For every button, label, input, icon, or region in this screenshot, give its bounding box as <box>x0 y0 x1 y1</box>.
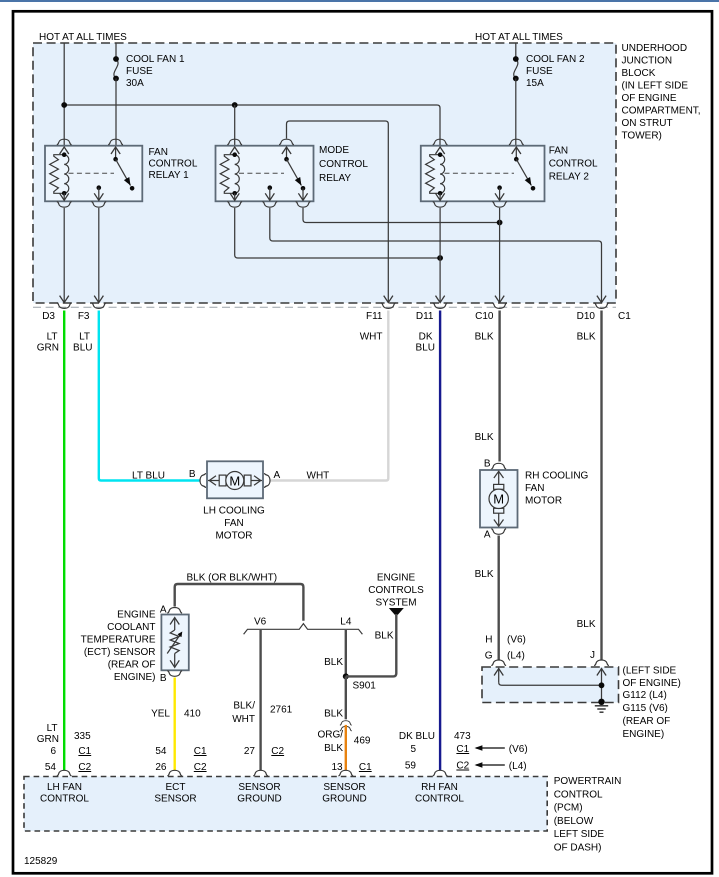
relay K2 coil pin 2 wire <box>234 193 236 200</box>
svg-text:(IN LEFT SIDE: (IN LEFT SIDE <box>622 81 689 92</box>
relay K1 switch contact <box>130 186 135 191</box>
relay K3 switch blade <box>516 159 531 185</box>
inline connector <box>340 721 352 725</box>
svg-text:C2: C2 <box>271 746 284 757</box>
svg-text:COOLANT: COOLANT <box>107 622 155 633</box>
svg-text:ON STRUT: ON STRUT <box>622 118 673 129</box>
svg-text:6: 6 <box>50 746 56 757</box>
svg-text:BLU: BLU <box>73 343 92 354</box>
wire: engine controls system to S901 <box>346 614 397 676</box>
svg-text:FUSE: FUSE <box>126 66 153 77</box>
svg-text:JUNCTION: JUNCTION <box>622 56 673 67</box>
connector at ECT pin B <box>167 671 182 677</box>
wire: YEL ECT B to PCM <box>173 678 175 771</box>
fuse COOL FAN 2 15A <box>513 56 519 81</box>
relay K2 body <box>216 146 314 202</box>
svg-text:J: J <box>590 650 595 661</box>
wire: ECT pin A harness BLK (OR BLK/WHT) <box>175 584 304 621</box>
svg-text:(PCM): (PCM) <box>554 803 583 814</box>
relay K1 switch common pin <box>115 147 117 159</box>
relay K2 internal dashed link <box>239 172 284 174</box>
svg-text:BLK: BLK <box>324 709 343 720</box>
svg-text:GRN: GRN <box>37 343 59 354</box>
svg-text:HOT AT ALL TIMES: HOT AT ALL TIMES <box>39 32 127 43</box>
svg-text:RH FAN: RH FAN <box>421 782 458 793</box>
svg-text:RELAY: RELAY <box>319 173 351 184</box>
svg-text:FAN: FAN <box>224 518 243 529</box>
svg-text:WHT: WHT <box>307 471 330 482</box>
svg-text:C1: C1 <box>359 762 372 773</box>
svg-text:F3: F3 <box>78 311 90 322</box>
relay K1 coil pin 2 wire <box>63 193 65 200</box>
wire: fuse1 to relay1 switch <box>115 79 117 147</box>
svg-text:54: 54 <box>155 746 167 757</box>
connector at ECT pin A <box>167 608 182 614</box>
relay K2 switch common pin <box>286 147 288 159</box>
svg-text:30A: 30A <box>126 78 144 89</box>
svg-text:473: 473 <box>454 731 471 742</box>
fuse COOL FAN 1 30A <box>113 56 119 81</box>
relay K3 coil pin 1 arrow <box>436 147 445 154</box>
relay K3 switch common pin <box>515 147 517 159</box>
connector at pin F11 <box>381 303 396 309</box>
motor M2 shaft line and arrows <box>498 471 500 527</box>
svg-text:C1: C1 <box>78 746 91 757</box>
svg-text:ENGINE: ENGINE <box>117 610 156 621</box>
svg-text:410: 410 <box>184 709 201 720</box>
wire: relay1 middle pin to F3 <box>98 208 100 302</box>
splice S901 <box>343 673 349 679</box>
connector at PCM pin 54/26 <box>167 770 182 776</box>
connector at PCM pin 27 <box>253 770 268 776</box>
relay K3: FAN CONTROL RELAY 2 <box>421 139 598 207</box>
wire: ORG/BLK to PCM <box>345 725 347 771</box>
svg-text:15A: 15A <box>526 78 544 89</box>
svg-text:(LEFT SIDE: (LEFT SIDE <box>623 666 677 677</box>
relay K2 switch blade <box>287 159 302 185</box>
motor M1: LH COOLING FAN MOTOR <box>189 461 281 541</box>
svg-text:RH COOLING: RH COOLING <box>525 471 589 482</box>
svg-text:469: 469 <box>354 736 371 747</box>
svg-text:C1: C1 <box>618 311 631 322</box>
svg-text:LH COOLING: LH COOLING <box>203 506 265 517</box>
svg-text:DK BLU: DK BLU <box>399 731 435 742</box>
motor M1 body <box>207 461 263 498</box>
svg-text:CONTROLS: CONTROLS <box>368 585 424 596</box>
svg-text:F11: F11 <box>366 311 383 322</box>
wire: BLK D10 to ground <box>600 311 602 661</box>
svg-text:FUSE: FUSE <box>526 66 553 77</box>
svg-text:A: A <box>160 605 167 616</box>
svg-text:BLK: BLK <box>475 432 494 443</box>
svg-text:MODE: MODE <box>319 145 349 156</box>
wire: DK BLU D11 to PCM <box>439 311 441 771</box>
connector at pin G/H <box>491 660 506 666</box>
svg-text:COMPARTMENT,: COMPARTMENT, <box>622 106 701 117</box>
svg-text:D3: D3 <box>42 311 55 322</box>
svg-text:D10: D10 <box>577 311 596 322</box>
svg-text:M: M <box>229 473 240 488</box>
svg-text:OF ENGINE): OF ENGINE) <box>623 678 681 689</box>
PCM box <box>24 777 547 832</box>
motor M1 brushes <box>219 475 226 486</box>
sensor: ECT thermistor <box>160 605 189 685</box>
svg-text:LEFT SIDE: LEFT SIDE <box>554 829 605 840</box>
svg-text:13: 13 <box>331 762 343 773</box>
svg-text:(L4): (L4) <box>507 651 525 662</box>
connector at PCM pin 13 <box>338 770 353 776</box>
wire: V6 branch BLK/WHT <box>259 630 261 771</box>
wire: mode relay switch common up and over to F11 <box>287 121 389 302</box>
svg-text:B: B <box>189 469 196 480</box>
wire: mode relay switch output over to C10 <box>303 208 500 223</box>
relay K1 pin connectors <box>57 139 72 145</box>
svg-text:BLK: BLK <box>324 743 343 754</box>
relay K1 output pin <box>97 185 102 190</box>
wire: left hot feed down to relay1 coil <box>63 43 65 146</box>
wire: LT BLU F3 to LH motor <box>99 311 200 481</box>
off-page arrow from engine controls system <box>389 608 404 617</box>
connector at pin D3 <box>57 303 72 309</box>
svg-text:CONTROL: CONTROL <box>319 159 368 170</box>
svg-text:H: H <box>485 635 492 646</box>
relay K3 output pin <box>497 185 502 190</box>
svg-text:26: 26 <box>155 762 167 773</box>
motor M1 armature symbol <box>226 472 244 490</box>
junction: bus at left feed <box>61 102 67 108</box>
motor M1 pin B connector <box>200 473 206 488</box>
wire: relay2 middle pin to C10 <box>499 208 501 302</box>
svg-text:(REAR OF: (REAR OF <box>108 660 156 671</box>
svg-text:OF DASH): OF DASH) <box>554 843 602 854</box>
connector at pin D10 <box>594 303 609 309</box>
wire: RH motor A to ground box <box>498 536 500 661</box>
svg-text:MOTOR: MOTOR <box>525 496 562 507</box>
connector at pin J <box>594 660 609 666</box>
svg-text:BLK/: BLK/ <box>233 701 255 712</box>
svg-text:5: 5 <box>410 744 416 755</box>
svg-text:GROUND: GROUND <box>237 794 281 805</box>
svg-text:BLK: BLK <box>324 657 343 668</box>
svg-text:C2: C2 <box>194 762 207 773</box>
svg-text:A: A <box>484 530 491 541</box>
wire: relay1 coil bottom to D3 <box>63 208 65 302</box>
svg-text:FAN: FAN <box>149 147 168 158</box>
svg-text:C10: C10 <box>475 311 494 322</box>
svg-text:G112 (L4): G112 (L4) <box>623 690 667 701</box>
svg-text:GRN: GRN <box>37 734 59 745</box>
svg-text:DK: DK <box>419 332 433 343</box>
svg-text:D11: D11 <box>416 311 434 322</box>
junction block connector face line <box>33 306 616 308</box>
relay K3 coil <box>426 152 445 195</box>
svg-text:SENSOR: SENSOR <box>323 782 365 793</box>
relay K3 pin connectors <box>433 139 448 145</box>
svg-text:ENGINE): ENGINE) <box>114 672 156 683</box>
relay K3 body <box>421 146 545 202</box>
wire: S901 down to inline connector <box>345 676 347 719</box>
top blue rule <box>0 0 719 2</box>
relay K1 coil <box>50 152 69 195</box>
underhood junction block box <box>33 43 616 303</box>
relay K3 switch contact <box>531 186 536 191</box>
svg-text:ECT: ECT <box>166 782 186 793</box>
relay K3 internal dashed link <box>445 172 515 174</box>
svg-text:G115 (V6): G115 (V6) <box>623 703 668 714</box>
svg-text:POWERTRAIN: POWERTRAIN <box>554 776 622 787</box>
svg-text:CONTROL: CONTROL <box>40 794 89 805</box>
svg-text:RELAY 1: RELAY 1 <box>149 170 190 181</box>
svg-text:BLK: BLK <box>375 631 394 642</box>
svg-text:TOWER): TOWER) <box>622 131 662 142</box>
svg-text:FAN: FAN <box>549 146 568 157</box>
svg-text:(ECT) SENSOR: (ECT) SENSOR <box>84 647 156 658</box>
relay K1: FAN CONTROL RELAY 1 <box>45 139 198 207</box>
ECT sensor body <box>161 615 188 671</box>
svg-text:M: M <box>493 492 504 507</box>
ECT pin B lead <box>174 654 176 668</box>
connector at PCM pin 6/54 <box>57 770 72 776</box>
relay K1 coil pin 1 arrow <box>60 147 69 154</box>
svg-text:LT: LT <box>47 723 58 734</box>
svg-text:FAN: FAN <box>525 483 544 494</box>
relay K2: MODE CONTROL RELAY <box>216 139 369 207</box>
wire: mode relay coil drop <box>234 105 236 146</box>
relay K2 output pin <box>268 185 273 190</box>
svg-text:C1: C1 <box>194 746 207 757</box>
wire: WHT F11 to LH motor <box>271 311 389 481</box>
ECT thermistor resistor zigzag <box>170 630 179 654</box>
option arrow (V6) <box>476 747 505 749</box>
wire: pin J entry <box>601 668 603 702</box>
ground <box>598 699 604 705</box>
ground block G112/G115 <box>482 660 619 712</box>
svg-text:(BELOW: (BELOW <box>554 816 594 827</box>
svg-text:L4: L4 <box>340 617 352 628</box>
svg-text:WHT: WHT <box>360 332 383 343</box>
svg-text:BLK: BLK <box>475 332 494 343</box>
svg-text:LT: LT <box>79 332 90 343</box>
motor M2 pin B connector <box>491 463 506 469</box>
ground block body <box>482 667 619 703</box>
svg-text:(V6): (V6) <box>509 744 528 755</box>
motor M2 armature symbol <box>489 489 508 508</box>
relay K2 coil pin 1 arrow <box>230 147 239 154</box>
svg-text:COOL FAN 2: COOL FAN 2 <box>526 54 585 65</box>
ECT variable arrow <box>167 634 180 653</box>
relay K2 switch contact pin <box>301 186 306 191</box>
relay K2 pin connectors <box>227 139 242 145</box>
svg-text:LT BLU: LT BLU <box>132 471 165 482</box>
svg-text:HOT AT ALL TIMES: HOT AT ALL TIMES <box>475 32 563 43</box>
svg-text:MOTOR: MOTOR <box>215 531 252 542</box>
motor M2: RH COOLING FAN MOTOR <box>480 459 589 541</box>
connector at PCM pin 5/59 <box>433 770 448 776</box>
connector at pin D11 <box>433 303 448 309</box>
wire: mode relay coil bottom over to D11 <box>235 208 440 258</box>
svg-text:CONTROL: CONTROL <box>554 789 603 800</box>
svg-text:V6: V6 <box>254 617 267 628</box>
ECT pin A lead <box>174 618 176 631</box>
connector at pin F3 <box>91 303 106 309</box>
relay K3 coil pin 2 wire <box>439 193 441 200</box>
relay K1 body <box>45 146 142 202</box>
wire: fuse2 to relay2 switch <box>515 79 517 147</box>
motor M1 pin A connector <box>264 473 270 488</box>
svg-text:S901: S901 <box>353 681 377 692</box>
svg-text:54: 54 <box>45 762 57 773</box>
relay K1 internal dashed link <box>69 172 115 174</box>
svg-text:C2: C2 <box>456 761 469 772</box>
option arrow (L4) <box>476 764 505 766</box>
svg-text:LH FAN: LH FAN <box>47 782 82 793</box>
motor M1 shaft line and arrows <box>208 480 262 482</box>
relay K1 switch blade <box>116 159 131 185</box>
motor M2 pin A connector <box>491 529 506 535</box>
svg-text:BLU: BLU <box>416 343 435 354</box>
svg-text:CONTROL: CONTROL <box>149 159 198 170</box>
wire: hot bus <box>64 105 440 146</box>
svg-text:YEL: YEL <box>151 709 170 720</box>
svg-text:335: 335 <box>74 731 91 742</box>
svg-text:B: B <box>160 673 167 684</box>
wire: L4 branch BLK to S901 <box>345 630 347 676</box>
svg-text:ENGINE): ENGINE) <box>623 729 665 740</box>
V6/L4 option split bracket <box>244 624 363 635</box>
wire: fuse1 drop <box>115 43 117 59</box>
svg-text:125829: 125829 <box>24 856 58 867</box>
svg-text:G: G <box>485 651 493 662</box>
connector at pin C10 <box>492 303 507 309</box>
svg-text:(REAR OF: (REAR OF <box>623 716 671 727</box>
motor M2 brushes <box>494 484 504 489</box>
svg-text:2761: 2761 <box>270 705 293 716</box>
svg-text:TEMPERATURE: TEMPERATURE <box>81 635 156 646</box>
svg-text:SENSOR: SENSOR <box>154 794 196 805</box>
wire: pin G/H entry <box>498 668 500 682</box>
wire: fuse2 drop <box>515 43 517 59</box>
wire: BLK C10 to RH motor <box>498 311 500 462</box>
svg-text:LT: LT <box>47 332 58 343</box>
svg-text:OF ENGINE: OF ENGINE <box>622 93 677 104</box>
svg-text:CONTROL: CONTROL <box>415 794 464 805</box>
svg-text:UNDERHOOD: UNDERHOOD <box>622 43 688 54</box>
svg-text:B: B <box>484 459 491 470</box>
svg-text:BLK: BLK <box>577 619 596 630</box>
svg-text:(V6): (V6) <box>507 635 526 646</box>
wire: relay2 coil bottom to D11 <box>439 208 441 302</box>
svg-text:WHT: WHT <box>232 714 255 725</box>
relay K2 coil <box>220 152 239 195</box>
svg-text:SENSOR: SENSOR <box>238 782 280 793</box>
svg-text:(L4): (L4) <box>509 761 527 772</box>
motor M2 body <box>480 470 518 528</box>
wire: LT GRN D3 to PCM <box>63 311 65 771</box>
svg-text:59: 59 <box>405 761 417 772</box>
svg-text:BLK (OR BLK/WHT): BLK (OR BLK/WHT) <box>187 573 278 584</box>
svg-text:BLK: BLK <box>475 569 494 580</box>
svg-text:A: A <box>274 470 281 481</box>
junction at ground bus <box>599 682 605 688</box>
svg-text:27: 27 <box>244 746 256 757</box>
svg-text:GROUND: GROUND <box>322 794 366 805</box>
svg-text:ORG/: ORG/ <box>317 730 343 741</box>
svg-text:RELAY 2: RELAY 2 <box>549 172 590 183</box>
svg-text:SYSTEM: SYSTEM <box>375 598 416 609</box>
svg-text:C2: C2 <box>78 762 91 773</box>
svg-text:BLK: BLK <box>577 332 596 343</box>
wire: mode relay middle pin over to D10 <box>270 208 602 302</box>
svg-text:CONTROL: CONTROL <box>549 159 598 170</box>
svg-text:ENGINE: ENGINE <box>377 573 416 584</box>
junction: bus at mode relay coil <box>232 102 238 108</box>
svg-text:BLOCK: BLOCK <box>622 68 656 79</box>
wire: internal bus to ground point <box>499 682 602 685</box>
svg-text:C1: C1 <box>456 744 469 755</box>
svg-text:COOL FAN 1: COOL FAN 1 <box>126 54 185 65</box>
